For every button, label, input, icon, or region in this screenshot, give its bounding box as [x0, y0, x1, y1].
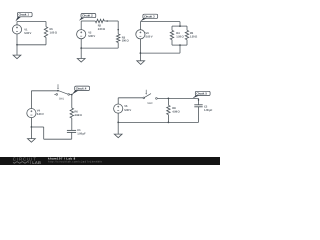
svg-text:5.00 V: 5.00 V	[124, 109, 131, 112]
svg-text:Circuit_1: Circuit_1	[19, 13, 30, 17]
wire (V2 bottom lead)	[80, 39, 82, 49]
voltage source V3	[136, 30, 145, 39]
switch SW1 actuator arrow	[57, 84, 59, 89]
wire (bottom bus, circuit 3)	[172, 44, 187, 46]
resistor R3	[117, 34, 120, 43]
voltage source V2	[77, 30, 86, 39]
wire (R5 bottom lead)	[186, 40, 188, 45]
svg-text:R5: R5	[190, 32, 193, 35]
switch SW1 left stub	[54, 93, 56, 95]
watermark url text	[48, 160, 102, 163]
junction (circuit 1 ground node)	[16, 44, 18, 46]
svg-text:4.99 Ω: 4.99 Ω	[74, 114, 82, 117]
junction (R8 bottom node)	[168, 122, 170, 124]
resistor R1	[44, 27, 47, 38]
label R3 value	[122, 36, 129, 42]
label SW2	[147, 102, 152, 105]
svg-text:5.00 V: 5.00 V	[24, 32, 31, 35]
wire (C2 top lead)	[198, 98, 200, 104]
label V2 value	[88, 32, 95, 38]
svg-text:5.00 V: 5.00 V	[146, 36, 153, 39]
switch SW2 actuator arrow	[145, 90, 147, 95]
junction (R8 top node)	[168, 98, 170, 100]
svg-text:Circuit_5: Circuit_5	[196, 92, 207, 96]
wire (V3 bottom lead)	[139, 39, 141, 53]
switch SW2 right terminal	[156, 98, 158, 100]
voltage source V1	[12, 25, 21, 34]
svg-text:R1: R1	[50, 28, 53, 31]
svg-text:1.00 µF: 1.00 µF	[204, 109, 213, 112]
svg-text:V5: V5	[124, 105, 127, 108]
wire (R1 top lead)	[45, 22, 47, 27]
wire (ground stem, circuit 3)	[139, 53, 141, 61]
wire (bottom mid vertical, circuit 4)	[43, 127, 45, 139]
wire (R1 bottom lead)	[45, 37, 47, 44]
switch SW1 lever	[58, 91, 68, 95]
wire (SW1 to node, circuit 4)	[70, 94, 72, 96]
node A1 / wire (top, circuit 1)	[17, 21, 46, 23]
ground (circuit 2)	[77, 59, 85, 63]
resistor R2	[95, 19, 104, 22]
wire (bottom stem, circuit 3)	[179, 45, 181, 53]
flag Circuit_3	[140, 14, 158, 21]
junction (wire end at SW1 lever)	[57, 90, 59, 92]
capacitor C2	[194, 105, 202, 107]
svg-text:LAB: LAB	[32, 160, 41, 165]
voltage source V4	[27, 109, 36, 118]
node A3 / wire (top, circuit 3)	[140, 21, 180, 23]
wire (bottom, circuit 2)	[81, 47, 118, 49]
wire (R4 top lead)	[171, 26, 173, 30]
wire (ground stem, circuit 1)	[16, 45, 18, 55]
wire (bottom, circuit 3)	[140, 52, 180, 54]
wire (top bus, circuit 3)	[172, 25, 187, 27]
svg-text:4.99 Ω: 4.99 Ω	[172, 111, 180, 114]
svg-text:V1: V1	[24, 29, 27, 32]
flag Circuit_5	[192, 91, 210, 98]
label V1 value	[24, 29, 31, 35]
resistor R5	[185, 30, 188, 39]
wire (R8 top lead)	[167, 98, 169, 105]
label V3 value	[146, 32, 153, 39]
svg-text:SW1: SW1	[59, 98, 64, 101]
svg-text:100 Ω: 100 Ω	[122, 40, 129, 43]
label SW1	[59, 98, 64, 101]
label V4 value	[37, 110, 44, 117]
svg-text:SW2: SW2	[147, 102, 152, 105]
wire (ground stem, circuit 4)	[30, 127, 32, 139]
wire (ground stem, circuit 2)	[80, 48, 82, 58]
svg-text:C1: C1	[77, 129, 80, 132]
switch SW1 left terminal	[56, 94, 58, 96]
junction (circuit 4 top-right node)	[71, 94, 73, 96]
ground (circuit 1)	[13, 55, 21, 59]
svg-text:R6: R6	[74, 110, 77, 113]
label R4 value	[176, 32, 184, 39]
svg-text:V2: V2	[88, 32, 91, 35]
svg-text:1.50 Ω: 1.50 Ω	[190, 35, 198, 38]
wire (C1 bottom lead)	[71, 132, 73, 139]
wire (R3 bottom lead)	[117, 43, 119, 49]
switch SW2 lever	[144, 94, 151, 98]
svg-text:Circuit_3: Circuit_3	[144, 15, 155, 19]
node A2 / wire (top left, circuit 2)	[81, 20, 95, 22]
resistor R4	[170, 30, 173, 39]
flag Circuit_1	[15, 12, 32, 21]
wire (ground stem, circuit 5)	[117, 122, 119, 134]
wire (top stem into bus, circuit 3)	[179, 22, 181, 27]
svg-text:1.00 Ω: 1.00 Ω	[50, 31, 58, 34]
svg-text:5.00 V: 5.00 V	[37, 113, 44, 116]
wire (R6 to C1 lead)	[71, 118, 73, 130]
label R6 value	[74, 110, 82, 117]
wire (top, circuit 5)	[118, 97, 143, 99]
wire (bottom, circuit 1)	[17, 44, 46, 46]
svg-text:1.00 µF: 1.00 µF	[77, 132, 86, 135]
svg-text:5.00 V: 5.00 V	[88, 35, 95, 38]
wire (V5 top lead)	[117, 98, 119, 104]
watermark title text	[48, 157, 76, 161]
wire (R5 top lead)	[186, 26, 188, 30]
svg-text:1.50 Ω: 1.50 Ω	[176, 35, 184, 38]
switch SW2 left terminal	[143, 97, 145, 99]
wire (V1 bottom lead)	[16, 34, 18, 45]
svg-text:2.00 Ω: 2.00 Ω	[98, 28, 106, 31]
junction (circuit 3 ground node)	[140, 52, 142, 54]
svg-text:R8: R8	[172, 107, 175, 110]
CircuitLab logo	[13, 156, 41, 165]
junction (circuit 4 ground node)	[31, 126, 33, 128]
wire (bottom, circuit 5)	[118, 121, 198, 123]
label C1 value	[77, 129, 86, 136]
wire (bottom left horizontal, circuit 4)	[31, 126, 43, 128]
wire (C2 bottom lead)	[198, 107, 200, 123]
flag Circuit_4	[72, 86, 90, 95]
resistor R8	[167, 105, 170, 114]
wire (left lead V1 top, circuit 1)	[16, 22, 18, 26]
wire (R6 top lead)	[71, 95, 73, 108]
svg-text:R3: R3	[122, 36, 125, 39]
label R5 value	[190, 32, 198, 39]
wire (V4 bottom lead)	[30, 118, 32, 128]
wire (SW2 to right column, circuit 5)	[157, 97, 198, 99]
wire (R4 bottom lead)	[171, 40, 173, 45]
wire (V4 top lead)	[30, 91, 32, 109]
svg-text:http://circuitlab.com/c2ad7v1k: http://circuitlab.com/c2ad7v1km4kfe	[48, 160, 102, 163]
wire (V2 top lead)	[80, 21, 82, 30]
voltage source V5	[114, 104, 123, 113]
wire (bottom, circuit 4)	[44, 138, 72, 140]
label R2 value	[98, 25, 106, 31]
wire (right down lead, circuit 2)	[117, 21, 119, 34]
switch SW1 right terminal	[68, 94, 70, 96]
label V5 value	[124, 105, 131, 112]
wire (V3 top lead)	[139, 22, 141, 30]
label R1 value	[50, 28, 58, 34]
svg-text:Circuit_2: Circuit_2	[82, 14, 92, 18]
resistor R6	[70, 108, 73, 118]
wire (V5 bottom lead)	[117, 113, 119, 122]
ground (circuit 4)	[28, 139, 36, 143]
ground (circuit 5)	[114, 134, 122, 138]
capacitor C1	[67, 130, 76, 132]
wire (R8 bottom lead)	[167, 115, 169, 123]
svg-text:V3: V3	[146, 32, 149, 35]
flag Circuit_2	[79, 14, 96, 21]
wire (top right, circuit 2)	[104, 20, 118, 22]
watermark bar	[0, 157, 220, 165]
svg-text:Circuit_4: Circuit_4	[76, 87, 87, 91]
label R8 value	[172, 107, 180, 114]
wire (top, circuit 4)	[31, 90, 58, 92]
junction (circuit 2 ground node)	[80, 47, 82, 49]
junction (circuit 5 ground node)	[117, 122, 119, 124]
ground (circuit 3)	[137, 61, 145, 65]
svg-text:C2: C2	[204, 105, 207, 108]
label C2 value	[204, 105, 213, 112]
svg-text:R2: R2	[98, 25, 101, 28]
